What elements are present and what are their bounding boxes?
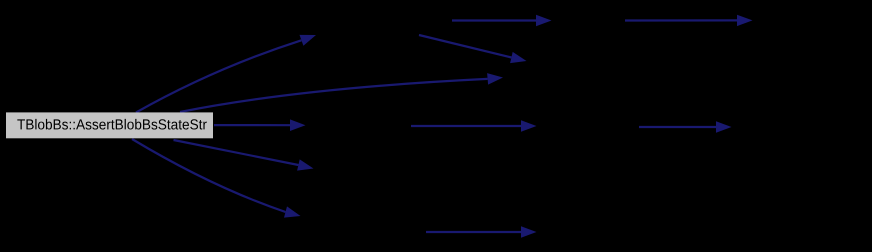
edge main->n2e (steep down) <box>132 139 301 218</box>
edge main->n3b (long swoop) <box>180 73 503 112</box>
edge main->n2c (horizontal) <box>214 119 306 131</box>
edge n2a->n3b (diagonal) <box>419 35 527 63</box>
edge n2e->n3e (bottom) <box>426 226 537 238</box>
edge n3a->n4a <box>625 15 753 26</box>
edge main->n2d (down-right) <box>174 140 314 171</box>
edge n3c->n4c <box>639 121 732 133</box>
edge n2c->n3c <box>411 120 537 132</box>
node TBlobBs::AssertBlobBsStateStr <box>6 112 213 138</box>
edge main->n2a (up-right) <box>136 35 316 113</box>
edge n2a->n3a <box>452 15 552 26</box>
